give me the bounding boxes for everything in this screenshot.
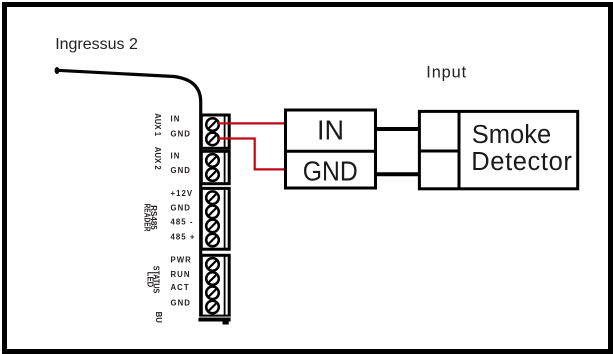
screw terminal 485- bbox=[206, 220, 219, 233]
rotated group labels bbox=[143, 113, 163, 323]
input module box bbox=[286, 110, 376, 188]
smoke detector connector divider vertical bbox=[458, 110, 461, 189]
terminal block: group AUX1 outline bbox=[201, 115, 229, 148]
input module divider bbox=[284, 150, 377, 153]
terminal block: RS485 inner rail bbox=[224, 188, 226, 249]
smoke detector box bbox=[419, 111, 577, 188]
svg-text:READER: READER bbox=[143, 204, 152, 232]
screw terminal RS485 GND bbox=[206, 206, 219, 219]
screw terminal PWR bbox=[206, 258, 219, 271]
svg-text:AUX 2: AUX 2 bbox=[153, 147, 162, 171]
terminal block: group RS485 outline bbox=[201, 188, 229, 249]
pin labels column bbox=[171, 115, 196, 308]
screw terminal ACT bbox=[206, 287, 219, 300]
svg-text:LED: LED bbox=[146, 272, 155, 288]
svg-text:IN: IN bbox=[171, 115, 181, 124]
terminal block: AUX1 inner rail bbox=[224, 115, 226, 148]
svg-text:GND: GND bbox=[171, 130, 191, 139]
svg-text:IN: IN bbox=[171, 152, 181, 161]
svg-text:IN: IN bbox=[317, 115, 344, 146]
svg-text:GND: GND bbox=[171, 166, 191, 175]
terminal block: group AUX2 outline bbox=[201, 151, 229, 183]
terminal block: STATUS inner rail bbox=[224, 255, 226, 316]
screw terminal +12V bbox=[206, 191, 219, 204]
screw terminal 485+ bbox=[206, 234, 219, 247]
svg-text:485 +: 485 + bbox=[171, 233, 196, 242]
svg-text:RUN: RUN bbox=[171, 270, 191, 279]
svg-text:485 -: 485 - bbox=[171, 218, 194, 227]
svg-text:BU: BU bbox=[154, 312, 163, 324]
screw terminal AUX2 IN bbox=[206, 154, 219, 167]
screw terminal AUX1 IN bbox=[206, 118, 219, 131]
svg-text:GND: GND bbox=[303, 156, 358, 187]
wire red: AUX1 GND to input module GND bbox=[217, 139, 285, 170]
svg-text:AUX 1: AUX 1 bbox=[153, 113, 162, 137]
terminal block bottom bar bbox=[198, 316, 230, 324]
screw terminal AUX2 GND bbox=[206, 168, 219, 181]
screw terminal RUN bbox=[206, 272, 219, 285]
svg-text:GND: GND bbox=[171, 203, 191, 212]
svg-text:Ingressus 2: Ingressus 2 bbox=[55, 36, 138, 53]
svg-text:GND: GND bbox=[171, 299, 191, 308]
svg-text:+12V: +12V bbox=[171, 189, 194, 198]
svg-text:ACT: ACT bbox=[171, 283, 190, 292]
svg-text:Smoke: Smoke bbox=[472, 121, 551, 149]
svg-text:Detector: Detector bbox=[471, 148, 572, 176]
terminal block: AUX2 inner rail bbox=[224, 151, 226, 183]
screw terminal AUX1 GND bbox=[206, 133, 219, 146]
svg-text:Input: Input bbox=[426, 64, 467, 82]
wire red: AUX1 IN to input module IN bbox=[217, 122, 285, 124]
terminal block: group STATUS outline bbox=[201, 255, 229, 316]
smoke detector connector divider horizontal bbox=[418, 150, 459, 153]
screw terminal STATUS GND bbox=[206, 301, 219, 314]
wire black: IN to smoke detector bbox=[377, 127, 418, 131]
cable from Ingressus 2 to terminal block bbox=[55, 67, 201, 318]
wire black: GND to smoke detector bbox=[377, 172, 418, 176]
svg-text:PWR: PWR bbox=[171, 256, 192, 265]
